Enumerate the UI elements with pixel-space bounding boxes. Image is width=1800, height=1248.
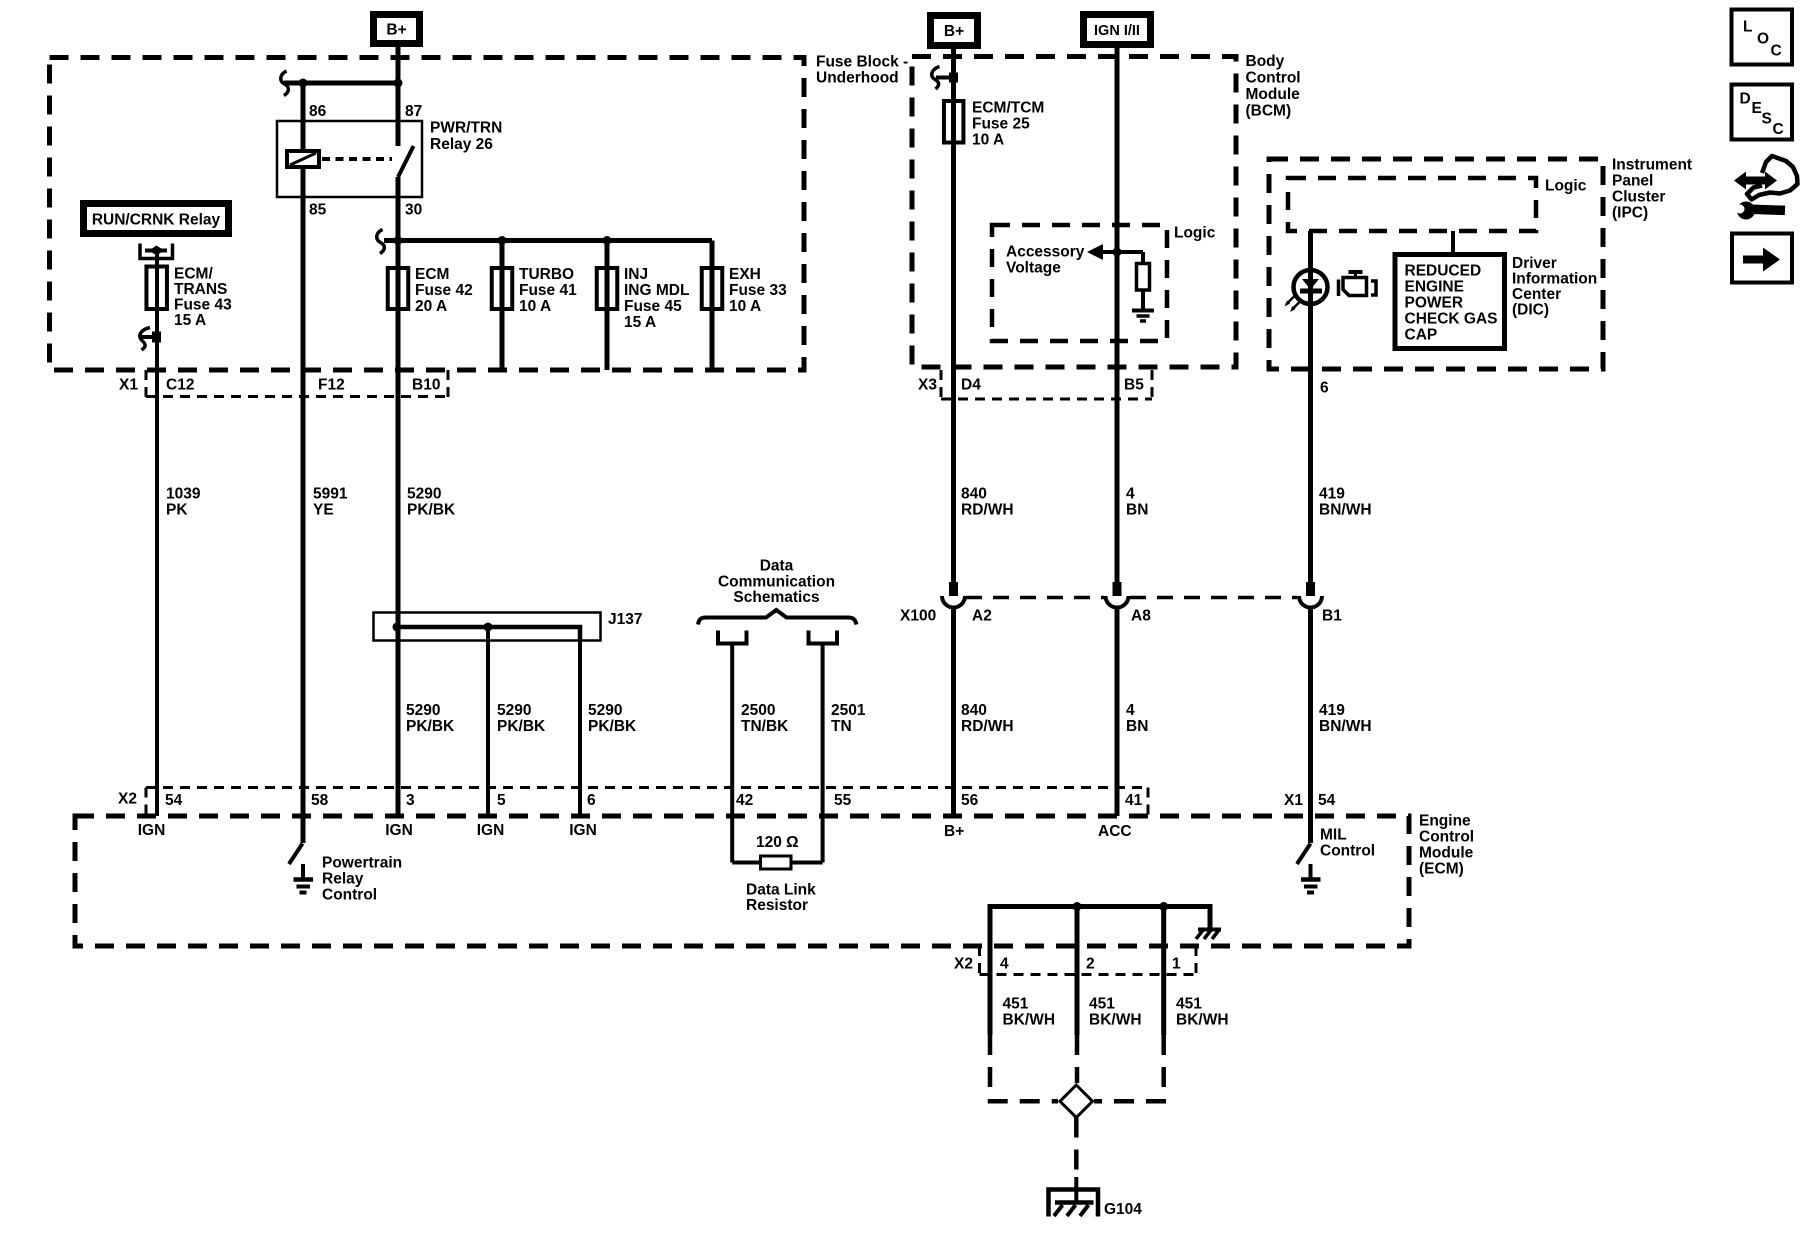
svg-text:BK/WH: BK/WH (1089, 1012, 1142, 1029)
svg-text:Powertrain: Powertrain (322, 855, 402, 872)
svg-text:1: 1 (1172, 956, 1181, 973)
junction dot fuse41 (498, 236, 507, 245)
svg-text:Control: Control (1320, 843, 1375, 860)
svg-text:2: 2 (1086, 956, 1095, 973)
svg-text:RD/WH: RD/WH (961, 718, 1014, 735)
svg-text:Schematics: Schematics (733, 589, 819, 606)
svg-text:58: 58 (311, 792, 329, 809)
svg-text:B5: B5 (1124, 377, 1144, 394)
clip hook at BCM B+ (932, 67, 940, 90)
svg-text:4: 4 (1000, 956, 1009, 973)
connector X100 dashed line (966, 596, 1104, 600)
fuse TURBO Fuse 41 10 A (492, 268, 513, 309)
svg-text:BN/WH: BN/WH (1319, 502, 1372, 519)
svg-text:451: 451 (1089, 996, 1115, 1013)
svg-text:Panel: Panel (1612, 173, 1653, 190)
wire: ground pin 1 (1161, 907, 1166, 1036)
svg-text:F12: F12 (318, 377, 345, 394)
connector strip X2 (ECM top) (146, 786, 1148, 789)
junction dot fuse45 (603, 236, 612, 245)
X100 terminal A2 (949, 582, 958, 596)
svg-text:C: C (1773, 121, 1784, 138)
module box: Fuse Block - Underhood (50, 58, 805, 371)
svg-text:120 Ω: 120 Ω (756, 834, 799, 851)
svg-text:5: 5 (497, 792, 506, 809)
svg-text:Fuse 43: Fuse 43 (174, 297, 232, 314)
ground (MIL control) (1309, 864, 1313, 878)
svg-text:6: 6 (587, 792, 596, 809)
svg-text:Relay 26: Relay 26 (430, 136, 493, 153)
MIL control driver switch (1297, 844, 1311, 865)
svg-text:Engine: Engine (1419, 813, 1471, 830)
svg-text:ENGINE: ENGINE (1405, 279, 1464, 296)
svg-text:B1: B1 (1322, 608, 1342, 625)
svg-text:Fuse 25: Fuse 25 (972, 116, 1030, 133)
svg-text:L: L (1743, 19, 1752, 36)
svg-text:4: 4 (1126, 486, 1135, 503)
svg-text:54: 54 (1318, 792, 1336, 809)
svg-text:ECM: ECM (415, 266, 449, 283)
svg-text:TN: TN (831, 718, 852, 735)
junction dot at coil branch (299, 79, 308, 88)
svg-text:ECM/: ECM/ (174, 266, 213, 283)
fuse ECM/TRANS Fuse 43 15 A (146, 267, 167, 310)
svg-text:BN: BN (1126, 718, 1148, 735)
svg-text:X2: X2 (954, 956, 973, 973)
svg-text:PWR/TRN: PWR/TRN (430, 120, 502, 137)
wire: logic to DIC box (1451, 231, 1455, 255)
wire: ground pin 2 (1075, 907, 1080, 1036)
wire: 86 feed bus (284, 81, 398, 86)
svg-text:PK/BK: PK/BK (406, 718, 455, 735)
wire: IGN I/II feed down to ECM pin 41 (1115, 48, 1120, 595)
svg-text:Driver: Driver (1512, 255, 1557, 272)
svg-text:TRANS: TRANS (174, 281, 227, 298)
svg-text:S: S (1762, 111, 1772, 128)
svg-text:2500: 2500 (741, 702, 775, 719)
module box: Engine Control Module (ECM) (75, 816, 1409, 946)
dashed wire pin 2 to splice (1075, 1035, 1080, 1083)
wire: A2 to ECM pin 56 (951, 608, 956, 817)
svg-text:X3: X3 (918, 377, 937, 394)
data link resistor circuit (732, 861, 760, 865)
svg-text:840: 840 (961, 486, 987, 503)
wire: ground pin 4 (988, 907, 993, 1036)
svg-text:C: C (1771, 43, 1782, 60)
svg-text:O: O (1757, 31, 1769, 48)
svg-text:5290: 5290 (407, 486, 441, 503)
svg-text:ECM/TCM: ECM/TCM (972, 100, 1044, 117)
svg-text:20 A: 20 A (415, 298, 447, 315)
svg-text:(BCM): (BCM) (1246, 103, 1292, 120)
power terminal IGN I/II (1080, 11, 1154, 48)
svg-text:10 A: 10 A (972, 132, 1004, 149)
svg-text:30: 30 (405, 202, 422, 219)
svg-text:POWER: POWER (1405, 295, 1464, 312)
svg-text:Accessory: Accessory (1006, 244, 1085, 261)
svg-text:Logic: Logic (1174, 225, 1216, 242)
svg-text:Instrument: Instrument (1612, 157, 1692, 174)
logic box inside BCM (992, 225, 1167, 341)
svg-text:Fuse 45: Fuse 45 (624, 298, 682, 315)
svg-text:Data Link: Data Link (746, 882, 816, 899)
relay switch blade (87-30) (398, 146, 414, 177)
wire: ECM/TRANS fuse branch down to ECM pin 54 (155, 252, 159, 816)
svg-text:B+: B+ (944, 823, 964, 840)
in-line clip below fuse 43 (140, 328, 150, 351)
svg-text:YE: YE (313, 502, 334, 519)
LED light arrows (1287, 296, 1296, 305)
X100 terminal A8 (1113, 582, 1122, 596)
svg-text:Body: Body (1246, 53, 1285, 70)
wire: B1 to ECM X1 pin 54 (1308, 608, 1313, 844)
svg-text:C12: C12 (166, 377, 194, 394)
svg-text:Underhood: Underhood (816, 70, 899, 87)
svg-text:Fuse 42: Fuse 42 (415, 282, 473, 299)
svg-text:451: 451 (1176, 996, 1202, 1013)
wire: TURBO fuse drop (500, 241, 505, 371)
connector stub (2500) (718, 631, 747, 644)
connector strip X3 (BCM bottom) (940, 370, 943, 399)
svg-text:X100: X100 (900, 608, 936, 625)
svg-text:ACC: ACC (1098, 823, 1132, 840)
svg-text:IGN I/II: IGN I/II (1094, 23, 1140, 39)
MIL indicator LED (1294, 270, 1328, 304)
fuse EXH Fuse 33 10 A (702, 268, 723, 309)
ground (powertrain relay control) (301, 864, 305, 878)
svg-text:REDUCED: REDUCED (1405, 263, 1482, 280)
svg-text:Module: Module (1246, 86, 1301, 103)
svg-text:10 A: 10 A (519, 298, 551, 315)
svg-text:BN: BN (1126, 502, 1148, 519)
svg-text:B+: B+ (386, 22, 406, 39)
svg-text:BN/WH: BN/WH (1319, 718, 1372, 735)
power terminal B+ (fuse block) (370, 11, 423, 47)
svg-text:56: 56 (961, 792, 979, 809)
connector stub (2501) (809, 631, 838, 644)
svg-text:ING MDL: ING MDL (624, 282, 689, 299)
wire: relay coil leg (86/85) down to ECM pin 58 (301, 83, 306, 151)
wire: EXH fuse drop (710, 241, 715, 371)
svg-text:CAP: CAP (1405, 327, 1438, 344)
icon: diagnostic arrows and wrench (1729, 156, 1798, 220)
svg-text:RD/WH: RD/WH (961, 502, 1014, 519)
svg-text:IGN: IGN (569, 822, 597, 839)
svg-text:PK: PK (166, 502, 188, 519)
svg-text:5290: 5290 (406, 702, 440, 719)
svg-text:TURBO: TURBO (519, 266, 574, 283)
svg-text:J137: J137 (608, 611, 642, 628)
svg-text:Fuse Block -: Fuse Block - (816, 54, 908, 71)
wire: DLC low to ECM pin 55 (821, 646, 825, 863)
svg-text:A2: A2 (972, 608, 992, 625)
svg-text:5991: 5991 (313, 486, 348, 503)
wire: relay pin 30 down through ECM Fuse 42, B10, J137 to ECM pin 3 (396, 177, 401, 816)
relay actuation dashed link (322, 157, 392, 161)
resistor 120 ohm (761, 856, 792, 869)
wire: B+ terminal drop to relay pin 87 (396, 47, 401, 146)
check engine icon (1339, 272, 1377, 296)
wire: J137 to ECM pin 5 (486, 627, 490, 816)
svg-text:Control: Control (1419, 829, 1474, 846)
fuse output bus (y=240) (384, 238, 712, 243)
wire: INJ fuse drop (605, 241, 610, 371)
dashed wire pin 4 to splice (990, 1035, 1058, 1101)
svg-text:3: 3 (406, 792, 415, 809)
svg-text:A8: A8 (1131, 608, 1151, 625)
bus tap hook (86 bus) (281, 71, 289, 96)
fuse ECM/TCM Fuse 25 10 A (944, 101, 964, 143)
accessory voltage sense branch (1100, 250, 1143, 254)
svg-text:419: 419 (1319, 486, 1345, 503)
DIC message box REDUCED ENGINE POWER CHECK GAS CAP (1395, 255, 1505, 349)
wire: IPC logic to MIL LED down to ECM X1 pin 54 (1308, 231, 1313, 595)
svg-text:(ECM): (ECM) (1419, 861, 1464, 878)
svg-text:Control: Control (1246, 70, 1301, 87)
svg-text:840: 840 (961, 702, 987, 719)
svg-text:10 A: 10 A (729, 298, 761, 315)
svg-text:Voltage: Voltage (1006, 260, 1061, 277)
svg-text:Logic: Logic (1545, 178, 1587, 195)
svg-text:86: 86 (309, 103, 327, 120)
svg-text:451: 451 (1003, 996, 1029, 1013)
junction dot fuse42 (394, 236, 403, 245)
svg-text:15 A: 15 A (174, 312, 206, 329)
svg-text:X2: X2 (118, 791, 137, 808)
icon box DESC (1732, 85, 1793, 140)
svg-text:(IPC): (IPC) (1612, 205, 1648, 222)
pull-down resistor (BCM logic) (1137, 264, 1150, 291)
svg-text:85: 85 (309, 202, 327, 219)
svg-text:41: 41 (1125, 792, 1143, 809)
svg-text:B10: B10 (412, 377, 440, 394)
RUN/CRNK Relay label box (80, 200, 232, 237)
svg-text:54: 54 (165, 792, 183, 809)
svg-text:EXH: EXH (729, 266, 761, 283)
svg-text:IGN: IGN (385, 822, 413, 839)
svg-text:Module: Module (1419, 845, 1474, 862)
connector strip X1 (fuse block bottom) (145, 370, 148, 397)
svg-text:42: 42 (736, 792, 753, 809)
splice diamond (1060, 1085, 1093, 1118)
module box: Body Control Module (BCM) (912, 57, 1236, 368)
svg-text:55: 55 (834, 792, 852, 809)
svg-text:TN/BK: TN/BK (741, 718, 789, 735)
svg-text:419: 419 (1319, 702, 1345, 719)
ground G104 (1049, 1190, 1099, 1217)
svg-text:15 A: 15 A (624, 314, 656, 331)
svg-text:Cluster: Cluster (1612, 189, 1665, 206)
svg-text:CHECK GAS: CHECK GAS (1405, 311, 1498, 328)
splice pack J137 (374, 613, 601, 641)
svg-text:5290: 5290 (588, 702, 622, 719)
X100 terminal B1 (1306, 582, 1315, 596)
chassis ground (ECM internal) (1196, 930, 1221, 940)
svg-text:IGN: IGN (477, 822, 505, 839)
relay terminal symbol (140, 244, 173, 259)
logic box inside IPC (1288, 178, 1536, 231)
svg-text:IGN: IGN (138, 822, 166, 839)
svg-text:Control: Control (322, 887, 377, 904)
ECM internal ground bus (990, 907, 1210, 1036)
svg-text:5290: 5290 (497, 702, 531, 719)
svg-text:2501: 2501 (831, 702, 866, 719)
dashed wire pin 1 to splice (1094, 1035, 1164, 1101)
svg-text:X1: X1 (1284, 792, 1303, 809)
svg-text:BK/WH: BK/WH (1003, 1012, 1056, 1029)
svg-text:X1: X1 (119, 377, 138, 394)
svg-text:Fuse 33: Fuse 33 (729, 282, 787, 299)
svg-text:D4: D4 (961, 377, 981, 394)
svg-text:Fuse 41: Fuse 41 (519, 282, 577, 299)
icon box LOC (1732, 10, 1793, 65)
svg-text:6: 6 (1320, 380, 1329, 397)
svg-text:1039: 1039 (166, 486, 201, 503)
brace (698, 610, 857, 625)
svg-text:RUN/CRNK Relay: RUN/CRNK Relay (92, 212, 221, 229)
svg-text:(DIC): (DIC) (1512, 302, 1549, 319)
icon box arrow (1732, 234, 1792, 283)
relay coil (287, 151, 319, 167)
svg-text:Information: Information (1512, 271, 1597, 288)
svg-text:PK/BK: PK/BK (588, 718, 637, 735)
fuse INJ ING MDL Fuse 45 15 A (597, 268, 618, 309)
power terminal B+ (BCM) (927, 12, 981, 49)
dashed wire splice to G104 (1074, 1118, 1079, 1178)
signal ground (BCM) (1132, 309, 1154, 313)
connector strip X2 (ECM bottom) (978, 946, 981, 975)
svg-text:BK/WH: BK/WH (1176, 1012, 1229, 1029)
module box: Instrument Panel Cluster (IPC) (1269, 159, 1603, 369)
svg-text:G104: G104 (1104, 1201, 1142, 1218)
svg-text:4: 4 (1126, 702, 1135, 719)
powertrain relay control driver switch (301, 816, 306, 843)
svg-text:MIL: MIL (1320, 827, 1347, 844)
svg-text:Communication: Communication (718, 574, 835, 591)
wire: DLC high to ECM pin 42 (730, 646, 734, 863)
fuse ECM Fuse 42 20 A (388, 268, 409, 309)
wire: A8 to ECM pin 41 (1115, 608, 1120, 817)
wire: BCM B+ feed down to ECM pin 56 (951, 49, 956, 595)
svg-text:PK/BK: PK/BK (407, 502, 456, 519)
svg-text:Data: Data (760, 558, 794, 575)
svg-text:Center: Center (1512, 286, 1561, 303)
bus tap hook (fuse bus) (377, 230, 385, 254)
svg-text:87: 87 (405, 103, 422, 120)
wire: J137 to ECM pin 6 (578, 641, 582, 816)
svg-text:PK/BK: PK/BK (497, 718, 546, 735)
svg-text:Resistor: Resistor (746, 897, 808, 914)
svg-text:D: D (1740, 91, 1751, 108)
svg-text:B+: B+ (944, 23, 964, 40)
junction dot at B+ drop (394, 79, 403, 88)
relay PWR/TRN Relay 26 box (277, 121, 422, 197)
svg-text:INJ: INJ (624, 266, 648, 283)
svg-text:Relay: Relay (322, 871, 364, 888)
svg-text:E: E (1752, 100, 1762, 117)
